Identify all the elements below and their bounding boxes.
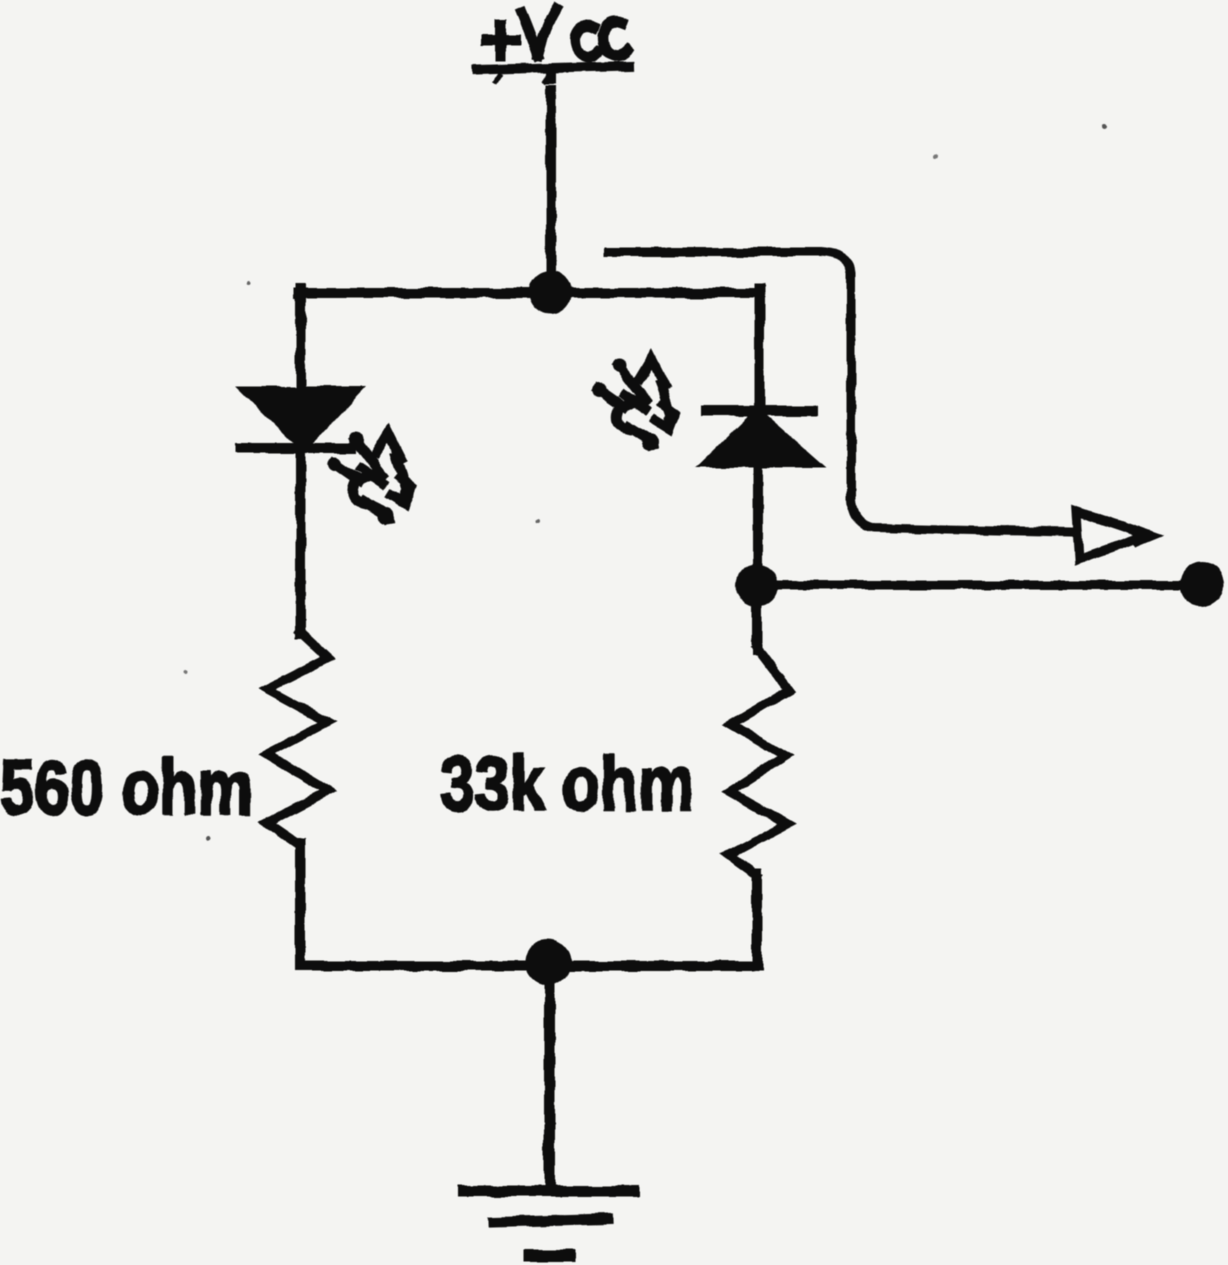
LED D1 cathode bar [240,443,351,453]
wire output from node B [757,581,1196,590]
power +Vcc underline [477,66,630,70]
resistor R1 zigzag [267,632,328,845]
wire Vcc down to node A [546,70,556,274]
ground bar 3 [529,1250,569,1262]
node C junction dot [525,939,571,985]
power +Vcc label [486,9,627,57]
scan speck [1102,125,1107,130]
wire R2 to bottom rail [752,873,762,964]
photodiode D2 cathode bar [706,406,813,416]
node A junction dot [529,271,573,315]
svg-text:560 ohm: 560 ohm [0,745,253,831]
wire node C to ground [544,966,555,1189]
scan speck [207,836,212,841]
svg-text:33k ohm: 33k ohm [440,741,694,827]
scan speck [933,155,937,159]
photodiode D2 incoming light arrows [592,359,678,450]
scan speck [247,280,251,284]
node B junction dot [736,564,778,606]
resistor R2 zigzag [729,648,789,875]
scan speck [184,671,188,675]
output terminal dot [1180,563,1224,607]
wire D2 to node B [753,461,763,570]
open arrowhead on tap wire [1076,511,1147,559]
wire bottom rail [300,961,757,971]
wire node A rail to photodiode D2 [755,289,765,409]
wire node B to resistor R2 [752,604,762,650]
LED D1 triangle [247,391,356,447]
ground bar 1 [463,1186,634,1197]
ground bar 2 [494,1219,608,1222]
photodiode D2 triangle [706,413,814,463]
scan speck [535,520,539,524]
wire LED D1 to resistor R1 [296,449,306,634]
wire node A to LED D1 [296,289,306,392]
wire R1 to bottom rail [295,843,305,964]
wire tap from Vcc feed going right [609,252,1071,532]
wire top horizontal rail [299,288,759,298]
LED D1 emission arrows [328,433,414,524]
